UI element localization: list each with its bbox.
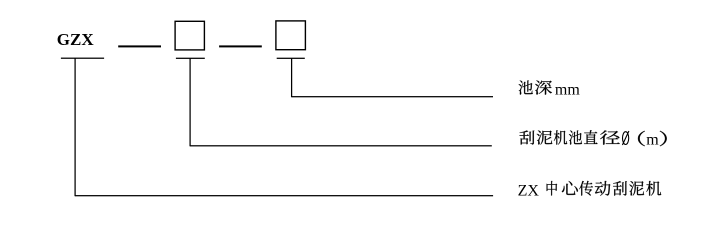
label3 char 心: [562, 181, 578, 195]
label2 char 泥: [537, 131, 553, 145]
dash separator 1: [118, 45, 161, 47]
label3 char 泥: [629, 181, 644, 195]
digit box 1: [175, 21, 204, 50]
tick bar under box 1: [176, 58, 205, 59]
label3 char 刮: [613, 181, 627, 195]
label3 char 机: [646, 181, 661, 196]
label1 char 深: [535, 81, 552, 95]
svg-text:mm: mm: [555, 82, 580, 99]
digit box 2: [276, 21, 306, 50]
tick bar under GZX: [61, 58, 104, 59]
label3 char 中: [547, 181, 558, 196]
svg-text:ZX: ZX: [518, 182, 540, 199]
svg-text:GZX: GZX: [57, 30, 95, 49]
label2 char 池: [569, 131, 582, 145]
wire down from box 1: [189, 58, 190, 146]
label2 char 径: [600, 130, 620, 144]
label1 char 池: [519, 81, 533, 95]
label2 fullwidth open paren: [638, 131, 645, 146]
dash separator 2: [219, 45, 262, 47]
wire to label: ZX center drive scraper: [75, 195, 493, 196]
label2 char 刮: [520, 130, 535, 144]
label2 fullwidth close paren: [660, 131, 667, 146]
wire to label: pool depth: [292, 96, 493, 97]
label2 symbol diameter Ø: [622, 131, 629, 145]
tick bar under box 2: [277, 58, 305, 59]
wire down from GZX: [74, 58, 75, 196]
svg-text:m: m: [646, 132, 659, 149]
wire down from box 2: [291, 58, 292, 97]
wire to label: scraper pool diameter: [190, 145, 492, 146]
label2 char 机: [554, 130, 567, 144]
label3 char 传: [579, 181, 593, 196]
label3 char 动: [595, 181, 611, 196]
label2 char 直: [584, 130, 598, 144]
